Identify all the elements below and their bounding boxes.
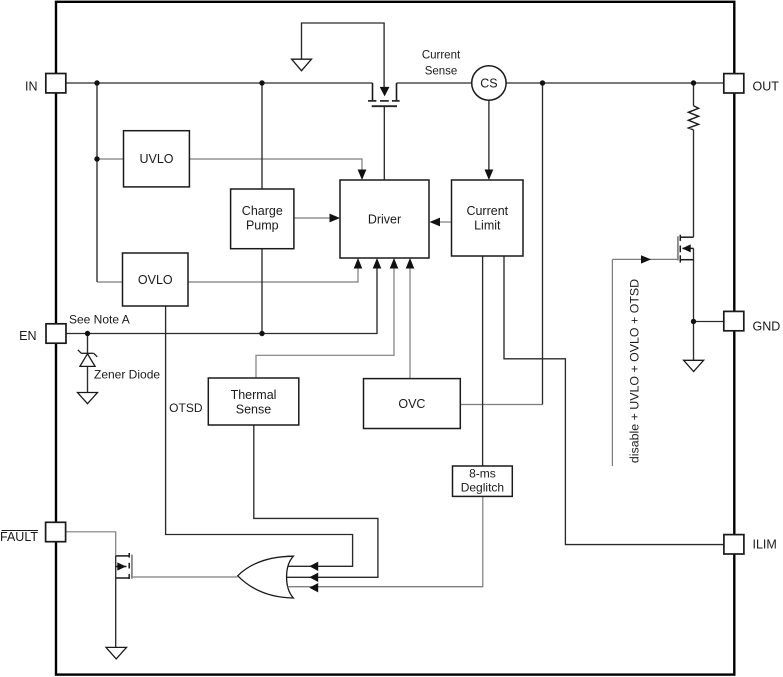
svg-text:Thermal: Thermal xyxy=(231,388,277,402)
svg-text:Deglitch: Deglitch xyxy=(461,480,504,494)
svg-text:8-ms: 8-ms xyxy=(469,467,496,481)
svg-text:FAULT: FAULT xyxy=(0,530,38,544)
svg-text:Driver: Driver xyxy=(368,213,401,227)
svg-text:OTSD: OTSD xyxy=(169,401,203,415)
svg-text:Pump: Pump xyxy=(246,218,279,232)
svg-text:OVC: OVC xyxy=(398,397,425,411)
svg-text:EN: EN xyxy=(19,329,36,343)
svg-text:Zener Diode: Zener Diode xyxy=(94,368,160,382)
svg-text:Sense: Sense xyxy=(425,66,458,78)
svg-text:See Note A: See Note A xyxy=(69,313,130,327)
svg-text:Limit: Limit xyxy=(474,218,501,232)
svg-text:GND: GND xyxy=(753,320,781,334)
svg-text:OUT: OUT xyxy=(753,80,780,94)
svg-text:disable + UVLO + OVLO + OTSD: disable + UVLO + OVLO + OTSD xyxy=(628,279,642,463)
svg-text:Current: Current xyxy=(422,50,461,62)
svg-text:UVLO: UVLO xyxy=(139,152,173,166)
svg-text:IN: IN xyxy=(25,80,38,94)
svg-text:ILIM: ILIM xyxy=(753,538,777,552)
svg-text:CS: CS xyxy=(480,76,497,90)
svg-text:OVLO: OVLO xyxy=(138,273,173,287)
svg-text:Sense: Sense xyxy=(236,403,271,417)
svg-text:Current: Current xyxy=(466,204,508,218)
svg-text:Charge: Charge xyxy=(242,204,283,218)
